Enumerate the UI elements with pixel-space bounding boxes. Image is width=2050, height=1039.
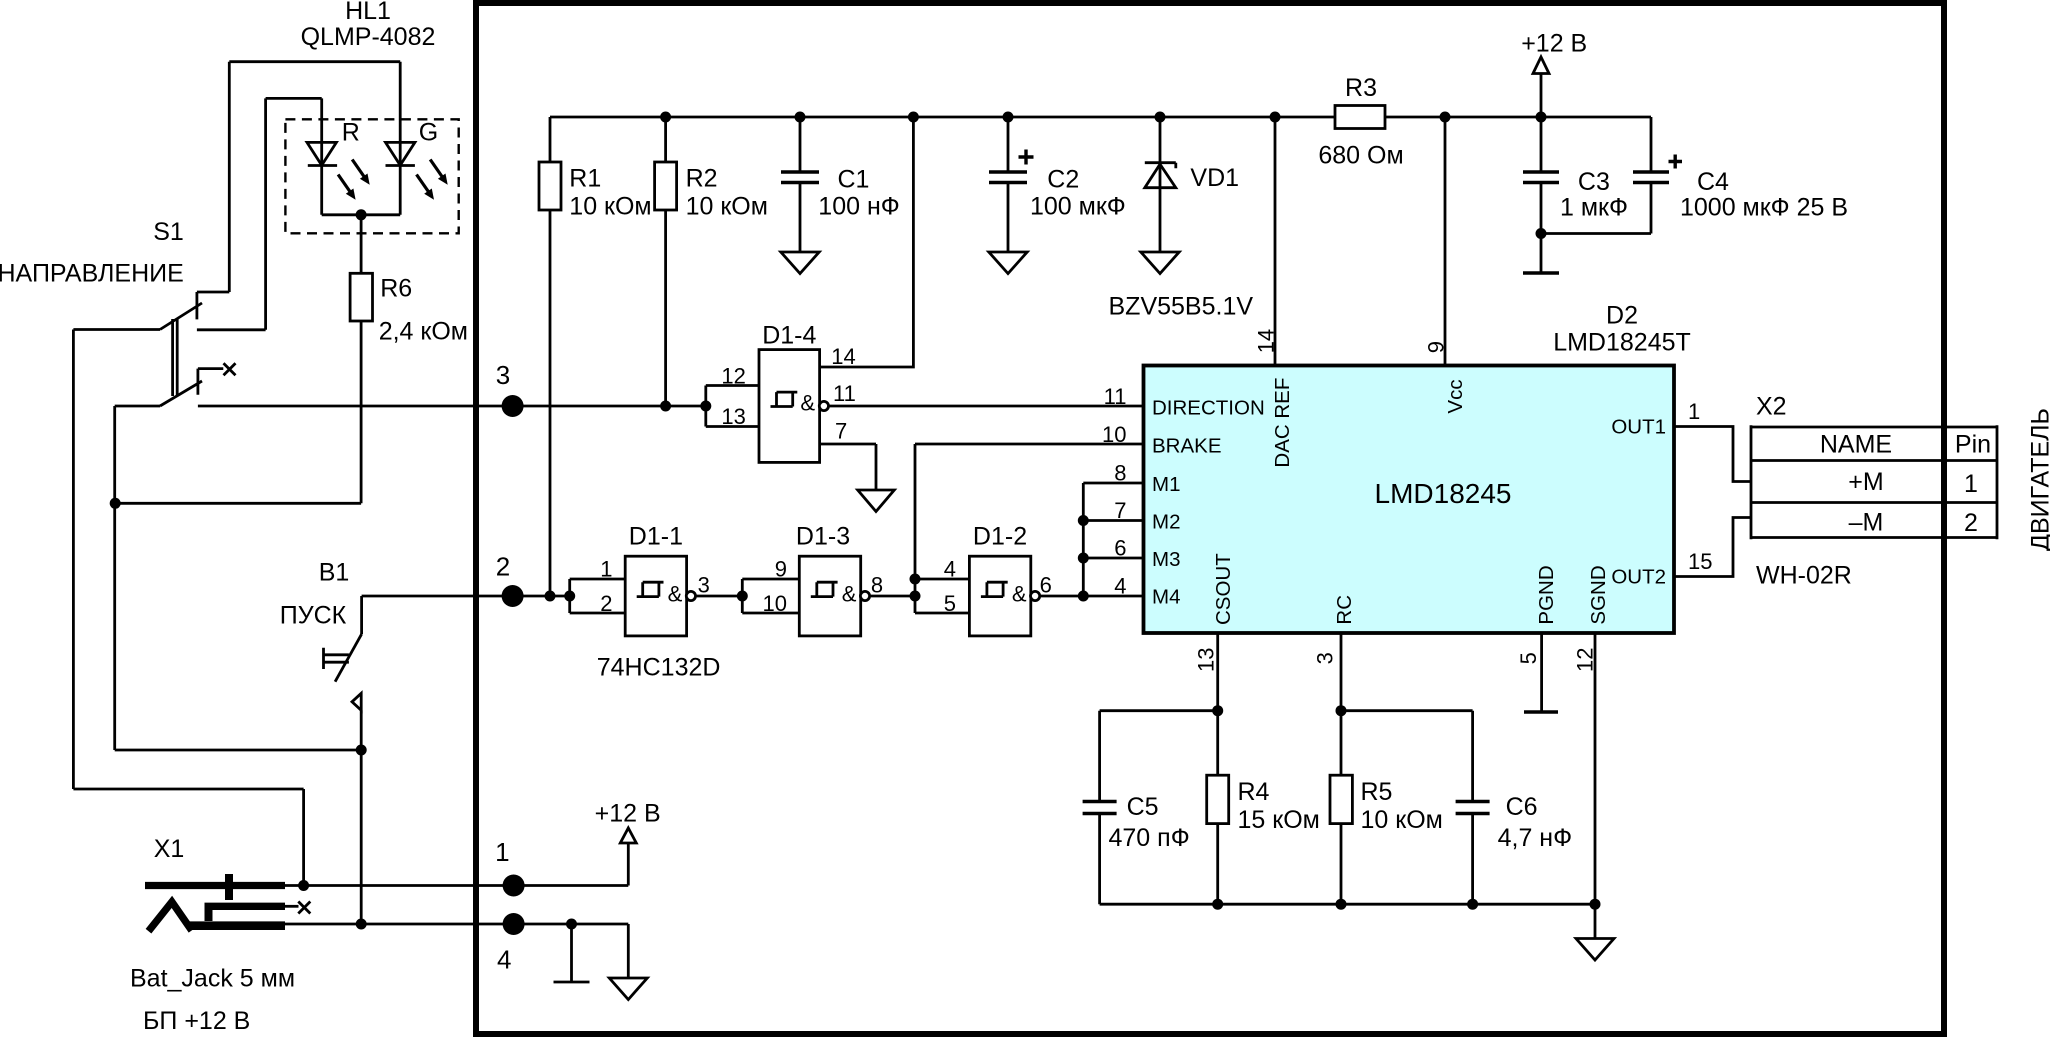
svg-text:PGND: PGND xyxy=(1535,565,1558,624)
svg-text:1000 мкФ 25 В: 1000 мкФ 25 В xyxy=(1680,194,1848,222)
svg-text:8: 8 xyxy=(871,573,883,598)
svg-text:12: 12 xyxy=(1573,648,1598,672)
svg-text:&: & xyxy=(842,582,857,607)
svg-text:DIRECTION: DIRECTION xyxy=(1152,397,1265,420)
svg-text:3: 3 xyxy=(496,360,510,390)
svg-text:ДВИГАТЕЛЬ: ДВИГАТЕЛЬ xyxy=(2027,408,2050,551)
svg-text:R2: R2 xyxy=(686,165,718,193)
svg-text:Pin: Pin xyxy=(1955,431,1991,459)
svg-text:R5: R5 xyxy=(1361,778,1393,806)
svg-text:74HC132D: 74HC132D xyxy=(597,654,721,682)
svg-text:X1: X1 xyxy=(154,835,185,863)
svg-text:1: 1 xyxy=(1964,470,1978,498)
svg-text:100 нФ: 100 нФ xyxy=(818,193,899,221)
svg-text:C5: C5 xyxy=(1127,793,1159,821)
svg-text:680 Ом: 680 Ом xyxy=(1318,142,1403,170)
svg-text:2: 2 xyxy=(1964,509,1978,537)
svg-text:14: 14 xyxy=(831,344,855,369)
svg-text:BRAKE: BRAKE xyxy=(1152,435,1222,458)
svg-text:14: 14 xyxy=(1254,329,1279,353)
svg-text:M4: M4 xyxy=(1152,586,1180,609)
svg-text:1: 1 xyxy=(1688,399,1700,424)
svg-text:13: 13 xyxy=(1194,648,1219,672)
svg-text:1: 1 xyxy=(600,557,612,582)
svg-text:5: 5 xyxy=(944,591,956,616)
svg-text:–M: –M xyxy=(1849,509,1884,537)
svg-text:+M: +M xyxy=(1848,468,1883,496)
svg-text:10 кОм: 10 кОм xyxy=(1361,806,1443,834)
svg-text:G: G xyxy=(419,119,438,147)
svg-text:&: & xyxy=(800,391,815,416)
svg-text:7: 7 xyxy=(1114,498,1126,523)
svg-text:11: 11 xyxy=(1104,384,1127,409)
svg-text:4: 4 xyxy=(944,557,956,582)
svg-text:15 кОм: 15 кОм xyxy=(1238,806,1320,834)
svg-text:&: & xyxy=(1012,582,1027,607)
svg-text:D1-4: D1-4 xyxy=(762,322,816,350)
svg-text:OUT2: OUT2 xyxy=(1611,566,1666,589)
svg-text:CSOUT: CSOUT xyxy=(1212,553,1235,625)
svg-text:7: 7 xyxy=(835,419,847,444)
svg-text:5: 5 xyxy=(1516,652,1541,664)
svg-text:1: 1 xyxy=(495,837,509,867)
svg-text:4,7 нФ: 4,7 нФ xyxy=(1498,824,1573,852)
svg-text:C4: C4 xyxy=(1697,168,1729,196)
svg-text:&: & xyxy=(668,582,683,607)
svg-text:B1: B1 xyxy=(319,559,350,587)
svg-text:D2: D2 xyxy=(1606,302,1638,330)
svg-text:BZV55B5.1V: BZV55B5.1V xyxy=(1109,293,1254,321)
svg-text:9: 9 xyxy=(775,557,787,582)
svg-text:OUT1: OUT1 xyxy=(1611,416,1666,439)
svg-text:100 мкФ: 100 мкФ xyxy=(1030,193,1126,221)
svg-text:6: 6 xyxy=(1040,573,1052,598)
svg-text:WH-02R: WH-02R xyxy=(1756,562,1852,590)
svg-text:R: R xyxy=(342,119,360,147)
svg-text:10: 10 xyxy=(1102,422,1126,447)
svg-text:10 кОм: 10 кОм xyxy=(569,193,651,221)
svg-text:6: 6 xyxy=(1114,536,1126,561)
svg-text:S1: S1 xyxy=(153,218,184,246)
svg-text:2,4 кОм: 2,4 кОм xyxy=(379,318,468,346)
svg-text:+12 В: +12 В xyxy=(595,800,661,828)
svg-text:LMD18245: LMD18245 xyxy=(1375,478,1512,509)
svg-text:RC: RC xyxy=(1333,595,1356,625)
svg-text:10 кОм: 10 кОм xyxy=(686,193,768,221)
svg-text:+12 В: +12 В xyxy=(1521,30,1587,58)
svg-text:D1-2: D1-2 xyxy=(973,523,1027,551)
svg-text:15: 15 xyxy=(1688,549,1712,574)
svg-text:R6: R6 xyxy=(380,275,412,303)
svg-text:10: 10 xyxy=(763,591,787,616)
svg-text:4: 4 xyxy=(1114,574,1126,599)
svg-text:1 мкФ: 1 мкФ xyxy=(1560,194,1628,222)
svg-text:DAC REF: DAC REF xyxy=(1271,378,1294,468)
svg-text:HL1: HL1 xyxy=(345,0,391,25)
svg-text:2: 2 xyxy=(496,552,510,582)
svg-text:VD1: VD1 xyxy=(1190,164,1239,192)
svg-text:НАПРАВЛЕНИЕ: НАПРАВЛЕНИЕ xyxy=(0,260,184,288)
svg-text:D1-3: D1-3 xyxy=(796,523,850,551)
svg-text:2: 2 xyxy=(600,591,612,616)
svg-text:C2: C2 xyxy=(1047,166,1079,194)
svg-text:9: 9 xyxy=(1424,341,1449,353)
svg-text:C6: C6 xyxy=(1506,793,1538,821)
svg-text:Bat_Jack 5 мм: Bat_Jack 5 мм xyxy=(130,965,295,993)
svg-text:C1: C1 xyxy=(838,166,870,194)
svg-text:4: 4 xyxy=(497,944,511,974)
svg-text:R4: R4 xyxy=(1238,778,1270,806)
svg-text:M1: M1 xyxy=(1152,473,1180,496)
svg-text:C3: C3 xyxy=(1578,168,1610,196)
svg-text:ПУСК: ПУСК xyxy=(280,602,347,630)
svg-text:12: 12 xyxy=(721,364,745,389)
svg-text:13: 13 xyxy=(721,404,745,429)
svg-text:NAME: NAME xyxy=(1820,431,1892,459)
svg-text:QLMP-4082: QLMP-4082 xyxy=(301,23,436,51)
svg-text:M3: M3 xyxy=(1152,548,1180,571)
svg-text:11: 11 xyxy=(833,381,856,406)
svg-text:Vcc: Vcc xyxy=(1444,379,1467,413)
svg-text:3: 3 xyxy=(698,573,710,598)
svg-text:SGND: SGND xyxy=(1587,565,1610,624)
svg-text:LMD18245T: LMD18245T xyxy=(1553,329,1691,357)
svg-text:470 пФ: 470 пФ xyxy=(1109,824,1190,852)
svg-text:X2: X2 xyxy=(1756,393,1787,421)
svg-text:8: 8 xyxy=(1114,461,1126,486)
svg-text:R3: R3 xyxy=(1345,74,1377,102)
svg-text:M2: M2 xyxy=(1152,511,1180,534)
svg-text:R1: R1 xyxy=(569,165,601,193)
svg-text:БП +12 В: БП +12 В xyxy=(143,1007,250,1035)
svg-text:D1-1: D1-1 xyxy=(629,523,683,551)
svg-text:3: 3 xyxy=(1313,652,1338,664)
